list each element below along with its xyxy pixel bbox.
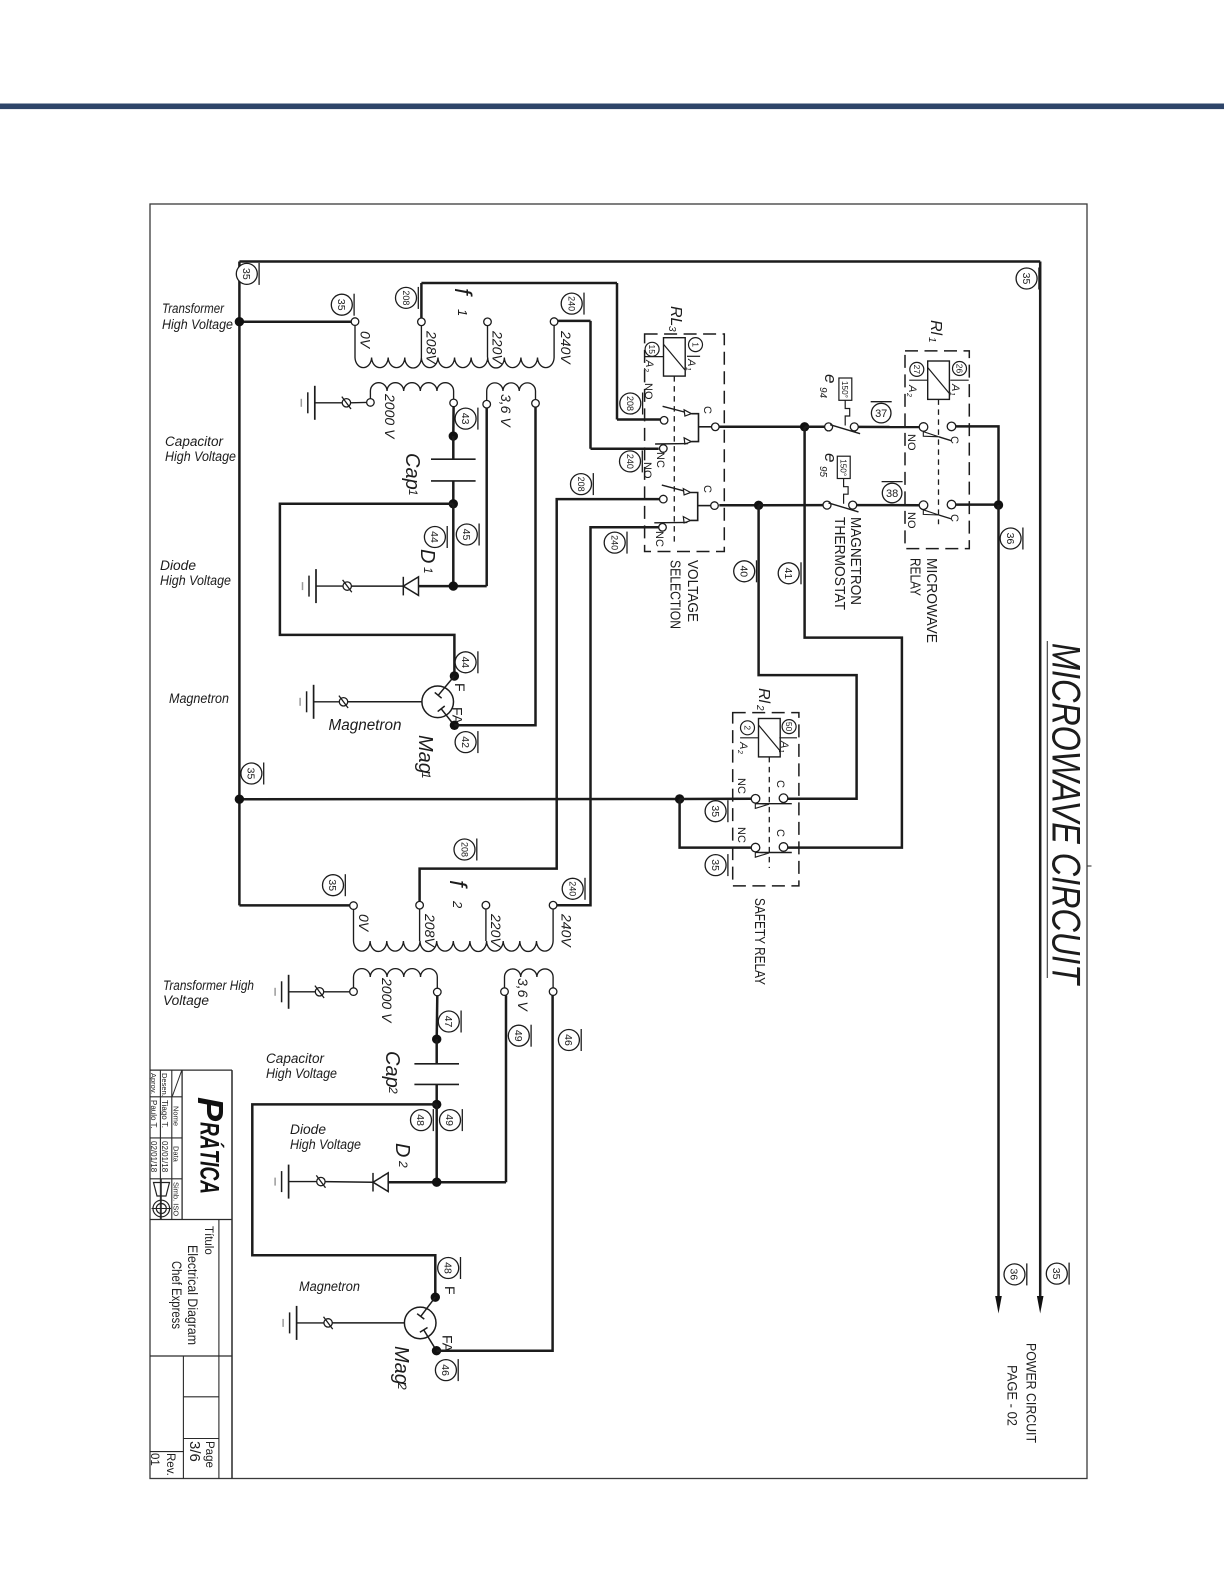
svg-text:44: 44 (428, 531, 440, 543)
svg-text:1: 1 (421, 567, 435, 574)
f1 2000V right lead (453, 391, 455, 399)
wire 48 loop to Mag2 F (252, 1104, 436, 1297)
svg-text:0V: 0V (358, 331, 374, 350)
svg-text:F: F (442, 1286, 458, 1295)
svg-text:Cap: Cap (381, 1051, 403, 1088)
svg-text:C: C (948, 436, 960, 444)
f2 terminal 220V (482, 901, 490, 909)
f1 240V lead (553, 325, 555, 357)
ground Mag1 (300, 685, 314, 719)
wire 49 cap2 to diode2 (435, 1104, 438, 1182)
svg-text:VOLTAGE: VOLTAGE (684, 560, 701, 622)
f2 2000V left terminal (350, 988, 358, 996)
wire number 37 (871, 402, 892, 423)
wire 38 e95 to Rl1 NO2 (857, 504, 920, 507)
svg-text:44: 44 (459, 656, 471, 668)
f2 3.6V left terminal (501, 988, 509, 996)
f1 3.6V right lead (535, 391, 537, 400)
wire 37 e94 to Rl1 NO1 (858, 426, 919, 429)
svg-text:Data: Data (171, 1146, 180, 1163)
wire number 240 at NC2 (604, 532, 627, 554)
svg-text:A: A (737, 741, 749, 749)
suppressor Mag1 (339, 696, 348, 708)
f2 240V lead (552, 909, 554, 941)
relay Rl1 box (905, 351, 969, 549)
Rl2 contact 1 (751, 794, 792, 809)
svg-text:2: 2 (396, 1160, 410, 1168)
wire number 36 bottom (1004, 1263, 1027, 1285)
svg-text:C: C (701, 485, 713, 493)
svg-text:NO: NO (642, 383, 654, 400)
f1 3.6V left terminal (483, 400, 491, 408)
svg-text:C: C (774, 829, 786, 837)
wire 240 f1 down (589, 321, 592, 449)
wire number 42 (455, 731, 478, 753)
wire number 35 mid-left (241, 763, 264, 785)
svg-text:Título: Título (202, 1226, 214, 1255)
svg-text:240: 240 (567, 881, 577, 896)
wire 41 (786, 427, 902, 848)
svg-text:208V: 208V (422, 913, 438, 948)
suppressor diode1 (343, 580, 352, 592)
svg-text:1: 1 (684, 367, 691, 371)
svg-text:1: 1 (691, 342, 701, 347)
svg-text:35: 35 (240, 268, 252, 280)
f2 3.6V winding (505, 969, 554, 977)
RL3 contact 2 (654, 485, 718, 531)
wire 35 arrow to power circuit (1037, 1296, 1044, 1314)
junction 35 middle (235, 795, 244, 804)
wire 35 left vertical (238, 262, 241, 800)
Rl1 contact 2 (919, 500, 956, 519)
f2 208V lead (419, 909, 421, 941)
suppressor diode2 (316, 1175, 325, 1187)
Mag2 FA dot (432, 1346, 441, 1355)
svg-text:240: 240 (625, 454, 635, 469)
svg-text:MAGNETRON: MAGNETRON (847, 517, 864, 605)
wire number 46 at 3.6V (558, 1029, 581, 1051)
f2 secondary 2000V winding (354, 969, 438, 977)
svg-text:3,6 V: 3,6 V (515, 978, 531, 1012)
relay RL3 coil (664, 338, 686, 376)
svg-text:NO: NO (905, 512, 917, 529)
magnetron Mag2 (404, 1297, 436, 1351)
svg-text:35: 35 (245, 768, 257, 780)
svg-text:A: A (778, 740, 790, 748)
wire 35 right vertical (1039, 262, 1042, 1298)
junction cap1 bottom (449, 499, 458, 508)
svg-text:RELAY: RELAY (907, 558, 924, 596)
f2 2000V left lead (353, 977, 355, 988)
wire cap1 top lead (452, 436, 455, 459)
svg-text:PAGE - 02: PAGE - 02 (1005, 1365, 1021, 1426)
svg-text:38: 38 (886, 488, 898, 500)
junction 35 at Rl2 (675, 794, 684, 803)
wire 35 to f1 0V (239, 320, 351, 323)
svg-text:47: 47 (442, 1016, 454, 1028)
svg-text:Voltage: Voltage (163, 993, 209, 1008)
svg-text:Nome: Nome (171, 1106, 180, 1126)
junction diode1 (449, 581, 458, 590)
svg-text:2: 2 (743, 725, 753, 730)
f2 2000V right lead (436, 977, 438, 988)
diode D2 (373, 1173, 388, 1192)
svg-text:NO: NO (905, 434, 917, 451)
title underline (1046, 641, 1048, 978)
f2 primary winding (354, 941, 554, 952)
svg-text:46: 46 (439, 1364, 451, 1376)
svg-text:208: 208 (625, 396, 635, 411)
svg-text:Tiago T.: Tiago T. (160, 1100, 169, 1128)
svg-text:Magnetron: Magnetron (299, 1279, 360, 1294)
suppressor Mag2 (324, 1317, 333, 1329)
wire number 40 (734, 560, 757, 582)
svg-text:49: 49 (443, 1114, 455, 1126)
svg-text:42: 42 (459, 736, 471, 748)
svg-text:41: 41 (782, 567, 794, 579)
wire 35 to f2 0V (239, 904, 349, 907)
svg-text:Transformer High: Transformer High (163, 978, 254, 993)
svg-text:Capacitor: Capacitor (266, 1051, 325, 1066)
svg-text:150°: 150° (840, 381, 849, 398)
svg-text:e: e (821, 374, 840, 383)
svg-text:240V: 240V (559, 913, 575, 948)
f2 0V lead (353, 909, 355, 941)
wire suppressor to diode1 (351, 585, 403, 587)
f1 3.6V right terminal (532, 400, 540, 408)
wire number 208 at NO1 (620, 393, 643, 415)
svg-text:Electrical Diagram: Electrical Diagram (185, 1245, 200, 1345)
ground f1 2000V (301, 386, 315, 420)
wire 37 to e94 (805, 426, 825, 429)
wire number 45 (456, 524, 479, 546)
wire 208 to RL3 NO1 (617, 418, 660, 421)
wire ground to suppressor f1 (315, 402, 342, 404)
wire number 208 f1 (396, 287, 419, 309)
svg-text:240V: 240V (558, 330, 574, 365)
wire 38 RL3 C2 to node 40 (719, 504, 758, 507)
f2 220V lead (485, 909, 487, 941)
wire number 35 f2 (323, 874, 346, 896)
f1 2000V left terminal (367, 399, 375, 407)
svg-text:0V: 0V (356, 914, 372, 933)
wire suppressor to Mag2 (332, 1322, 404, 1324)
svg-text:SELECTION: SELECTION (667, 560, 684, 629)
relay Rl2 coil (759, 719, 781, 757)
wire number 36 (1000, 528, 1023, 550)
f1 2000V left lead (369, 391, 371, 399)
drawing frame (150, 204, 1087, 1479)
svg-text:A: A (949, 383, 961, 391)
svg-text:50: 50 (784, 722, 794, 732)
wire 40 (759, 505, 857, 798)
wire from Rl1 C2 (956, 503, 999, 506)
relay Rl2 box (733, 713, 799, 886)
svg-text:D: D (391, 1143, 413, 1157)
svg-text:Simb. ISO: Simb. ISO (171, 1182, 180, 1216)
svg-text:94: 94 (817, 387, 828, 399)
f1 primary winding (355, 358, 554, 369)
svg-text:95: 95 (817, 466, 828, 478)
wire cap1 bottom lead (452, 481, 455, 504)
svg-text:POWER CIRCUIT: POWER CIRCUIT (1024, 1343, 1040, 1443)
svg-text:NC: NC (735, 778, 747, 794)
svg-text:2: 2 (736, 749, 743, 754)
svg-text:2: 2 (642, 367, 649, 372)
wire number 35 top-right (1016, 268, 1039, 290)
svg-text:208: 208 (401, 290, 411, 305)
svg-text:1: 1 (926, 337, 937, 343)
junction cap2 bottom (432, 1100, 441, 1109)
svg-text:High Voltage: High Voltage (165, 449, 236, 464)
svg-text:High Voltage: High Voltage (266, 1066, 337, 1081)
RL3 pin 15 (645, 342, 664, 356)
svg-text:35: 35 (709, 859, 721, 871)
svg-text:27: 27 (912, 365, 922, 375)
f1 terminal 208V (418, 318, 426, 326)
Rl2 pin 50 (779, 720, 797, 738)
svg-text:High Voltage: High Voltage (290, 1137, 361, 1152)
wire ground to suppressor diode2 (289, 1181, 317, 1183)
svg-text:208V: 208V (424, 330, 440, 365)
relay Rl1 coil (928, 361, 950, 399)
svg-text:MICROWAVE: MICROWAVE (923, 558, 940, 643)
capacitor Cap1 (431, 459, 476, 481)
junction diode2 (432, 1178, 441, 1187)
wire number 35 bottom (1046, 1263, 1069, 1285)
wire ground to suppressor diode1 (316, 585, 343, 587)
wire 35 middle bus (239, 798, 679, 801)
svg-text:Mag: Mag (414, 735, 436, 774)
title block (150, 1069, 232, 1071)
wire 46 Mag2 FA to 3.6V right (437, 995, 553, 1350)
wire ground to suppressor Mag1 (314, 701, 340, 703)
thermostat e95 (823, 456, 859, 512)
svg-text:Magnetron: Magnetron (169, 691, 229, 706)
f1 220V lead (487, 326, 489, 358)
RL3 contact 1 (655, 406, 719, 452)
svg-text:Rl: Rl (927, 320, 944, 336)
svg-text:RÁTICA: RÁTICA (195, 1122, 226, 1194)
f1 terminal 240V (550, 318, 558, 326)
wire 35 to Rl2 NC2 (680, 799, 752, 848)
svg-text:Rl: Rl (755, 688, 772, 704)
svg-text:2000 V: 2000 V (382, 393, 398, 440)
wire 45 cap1 to diode1 (452, 504, 455, 586)
svg-text:37: 37 (875, 408, 887, 420)
f2 3.6V right terminal (549, 988, 557, 996)
f2 2000V right terminal (434, 988, 442, 996)
svg-text:26: 26 (955, 364, 965, 374)
junction 38/40 (754, 501, 763, 510)
ISO symbol circle (152, 1179, 172, 1219)
svg-text:High Voltage: High Voltage (160, 573, 231, 588)
svg-text:3: 3 (666, 326, 677, 332)
f1 terminal 0V (351, 318, 359, 326)
thermostat e94 (825, 378, 861, 434)
wire 208 f1 down (616, 283, 619, 420)
svg-text:49: 49 (512, 1030, 524, 1042)
svg-text:35: 35 (326, 879, 338, 891)
svg-text:48: 48 (414, 1114, 426, 1126)
ground Mag2 (283, 1306, 297, 1340)
svg-text:A: A (906, 384, 918, 392)
wire 208 f2 to RL3 NO2 (420, 499, 661, 901)
svg-text:35: 35 (1020, 273, 1032, 285)
svg-text:Magnetron: Magnetron (329, 717, 402, 734)
Rl1 pin 27 (909, 362, 928, 380)
diode D1 (403, 577, 418, 596)
svg-text:A: A (685, 358, 697, 366)
svg-text:35: 35 (335, 299, 347, 311)
svg-text:1: 1 (419, 772, 433, 779)
junction 47 (432, 1035, 441, 1044)
svg-text:48: 48 (441, 1262, 453, 1274)
svg-text:35: 35 (1050, 1268, 1062, 1280)
svg-text:Transformer: Transformer (162, 301, 224, 316)
wire 208 f1 top run (421, 282, 617, 285)
junction 43 (449, 431, 458, 440)
wire number 49 at 3.6V (508, 1025, 531, 1047)
svg-text:MICROWAVE CIRCUIT: MICROWAVE CIRCUIT (1044, 643, 1088, 986)
Rl2 contact 2 (751, 843, 792, 858)
svg-text:220V: 220V (488, 913, 504, 948)
capacitor Cap2 (414, 1064, 459, 1085)
svg-text:02/01/18: 02/01/18 (149, 1141, 158, 1173)
wire number 44 at Mag1 F (455, 651, 478, 673)
junction 35/f1-0V (235, 317, 244, 326)
svg-text:2: 2 (450, 900, 465, 909)
wire 36 from Rl1 C1 (956, 426, 999, 505)
ground diode2 (275, 1165, 289, 1199)
svg-text:43: 43 (459, 413, 471, 425)
Rl1 contact 1 (919, 422, 956, 441)
svg-text:D: D (416, 549, 438, 563)
svg-text:1: 1 (948, 392, 955, 396)
RL3 pin 1 (687, 338, 703, 357)
svg-text:High Voltage: High Voltage (162, 317, 233, 332)
f1 3.6V left lead (486, 391, 488, 400)
svg-text:Aprov.: Aprov. (149, 1073, 158, 1094)
svg-text:2: 2 (395, 1382, 409, 1390)
svg-text:1: 1 (406, 489, 420, 496)
svg-text:208: 208 (459, 842, 469, 857)
svg-text:2: 2 (905, 392, 912, 397)
wire 35 to Rl2 NC1 (680, 798, 752, 801)
wire number 44 (424, 526, 447, 548)
wire number 35 at Rl2 c2 (705, 854, 728, 876)
wire cap2 bottom lead (435, 1084, 438, 1104)
wire number 47 (438, 1011, 461, 1033)
wire suppressor to 2000V f1 (351, 401, 367, 403)
svg-text:Chef Express: Chef Express (169, 1261, 184, 1329)
svg-text:Desen.: Desen. (160, 1073, 169, 1097)
svg-text:NC: NC (735, 827, 747, 843)
wire suppressor to 2000V f2 (324, 991, 350, 993)
relay RL3 box (645, 334, 725, 552)
wire 36 vertical (997, 505, 1000, 1297)
Rl1 link line (938, 399, 940, 524)
svg-text:45: 45 (460, 529, 472, 541)
svg-text:A: A (643, 359, 655, 367)
wire suppressor to Mag1 (348, 701, 422, 703)
svg-text:C: C (774, 780, 786, 788)
svg-text:THERMOSTAT: THERMOSTAT (831, 517, 848, 610)
Rl1 pin 26 (950, 362, 968, 381)
svg-text:Paulo T.: Paulo T. (149, 1100, 158, 1129)
wire number 35 at Rl2 c1 (705, 800, 728, 822)
Mag1 F dot (450, 671, 459, 680)
wire 42 Mag1 FA to 3.6V right (454, 407, 535, 725)
wire 35 top bus (239, 260, 1040, 263)
svg-text:RL: RL (667, 306, 684, 326)
svg-text:36: 36 (1008, 1269, 1020, 1281)
wire diode1 node (419, 585, 487, 588)
f2 3.6V right lead (552, 977, 554, 988)
svg-text:SAFETY RELAY: SAFETY RELAY (751, 898, 768, 985)
wire number 48 (411, 1109, 434, 1131)
svg-text:3,6 V: 3,6 V (498, 394, 514, 428)
svg-text:35: 35 (709, 805, 721, 817)
magnetron Mag1 (422, 676, 454, 726)
wire number 49 (440, 1109, 463, 1131)
wire number 35 at f1 0V (331, 294, 354, 316)
f1 0V lead (354, 325, 356, 357)
wire cap2 top lead (435, 1039, 438, 1064)
wire 36 arrow to power circuit (995, 1296, 1002, 1314)
svg-text:NC: NC (653, 531, 665, 547)
wire number 208 f2 (454, 839, 477, 861)
Mag2 F dot (431, 1293, 440, 1302)
svg-text:240: 240 (609, 535, 619, 550)
svg-text:02/01/18: 02/01/18 (160, 1141, 169, 1173)
f1 secondary 2000V winding (370, 383, 453, 391)
svg-text:Diode: Diode (160, 558, 196, 573)
Mag1 FA dot (450, 721, 459, 730)
wire ground to suppressor Mag2 (297, 1322, 324, 1324)
wire 240 f2 to RL3 NC2 (557, 527, 659, 905)
ISO symbol cone (154, 1183, 170, 1197)
f2 terminal 240V (549, 901, 557, 909)
wire 240 f1 right (558, 320, 591, 323)
wire number 38 (882, 482, 903, 503)
svg-text:Capacitor: Capacitor (165, 434, 224, 449)
wire 43 2000V to cap1 (452, 407, 455, 436)
svg-text:P: P (190, 1097, 231, 1122)
wire number 240 f1 (561, 293, 584, 315)
svg-text:240: 240 (566, 296, 576, 311)
svg-text:Cap: Cap (401, 453, 423, 490)
svg-text:C: C (701, 406, 713, 414)
wire diode2 node (388, 1181, 506, 1184)
wire 37 RL3 C1 to e94 (719, 426, 805, 429)
Rl2 pin 2 (740, 721, 758, 738)
svg-text:36: 36 (1004, 533, 1016, 545)
f1 3.6V winding (487, 383, 536, 391)
svg-text:Page: Page (203, 1441, 215, 1468)
wire 45 diode1 to 3.6V left (485, 408, 488, 586)
svg-text:2: 2 (754, 704, 765, 711)
svg-text:Mag: Mag (390, 1346, 412, 1385)
frame centre tick (1087, 865, 1092, 867)
Rl2 link line (768, 757, 770, 868)
svg-text:15: 15 (647, 345, 657, 355)
wire number 240 f2 (562, 878, 585, 900)
wire 44 loop to Mag1 F (280, 504, 455, 676)
wire number 35 top-left (236, 263, 259, 285)
svg-text:1: 1 (777, 749, 784, 753)
svg-text:e: e (821, 453, 840, 462)
